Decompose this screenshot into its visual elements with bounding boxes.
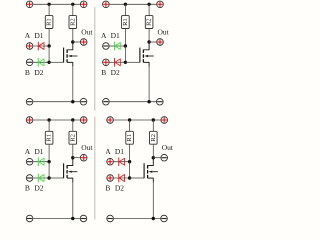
node BL top rail R2 tap (junction dot) <box>71 118 74 121</box>
terminal TR supply V+ right <box>157 1 164 8</box>
terminal BL supply V+ right <box>80 117 87 124</box>
wire TR bottom supply rail <box>110 101 157 103</box>
node BR diode node lower / gate tap (junction dot) <box>128 176 131 179</box>
wire TL bottom supply rail <box>33 101 80 103</box>
svg-text:Out: Out <box>81 27 93 36</box>
svg-text:R1: R1 <box>126 134 133 142</box>
wire TL drain node to Out terminal <box>73 41 80 43</box>
svg-text:D2: D2 <box>115 184 124 193</box>
wire BR drain node to Out terminal <box>153 157 160 159</box>
terminal TL input A <box>26 43 33 50</box>
wire TR R1 bottom lead to diode node <box>124 29 126 47</box>
terminal TR input B <box>103 59 110 66</box>
diode D1 <box>38 42 44 51</box>
svg-text:B: B <box>105 184 110 193</box>
wire TL input B through D2 to node <box>33 61 49 63</box>
wire BL input A through D1 to node <box>33 161 49 163</box>
wire BR diode node vertical <box>129 162 131 178</box>
transistor Q1 (BR n-channel MOSFET) <box>130 158 158 183</box>
wire TL top supply rail <box>33 3 80 5</box>
diode D2 <box>38 174 44 183</box>
wire TL source to bottom rail <box>72 67 74 102</box>
wire TR input B through D2 to node <box>110 61 126 63</box>
terminal TR supply V+ left <box>103 1 110 8</box>
wire BR R2 bottom lead to drain node <box>152 144 154 158</box>
node BR diode node upper (junction dot) <box>128 160 131 163</box>
resistor R1 <box>122 16 130 29</box>
node BL drain node (junction dot) <box>71 156 74 159</box>
transistor Q1 (TL n-channel MOSFET) <box>49 42 77 67</box>
svg-text:A: A <box>25 147 31 156</box>
wire BL R1 bottom lead to diode node <box>48 144 50 162</box>
wire TR R2 bottom lead to drain node <box>148 29 150 43</box>
wire TR drain node to Out terminal <box>149 41 156 43</box>
node TL bottom rail source tap (junction dot) <box>71 100 74 103</box>
diode D1 <box>119 157 125 166</box>
svg-text:B: B <box>25 184 30 193</box>
diode D1 <box>115 42 121 51</box>
terminal TL input B <box>26 59 33 66</box>
terminal TL supply V+ right <box>80 1 87 8</box>
wire BL R2 top lead <box>72 120 74 131</box>
wire TR top supply rail <box>110 3 157 5</box>
terminal BL Out <box>80 154 87 161</box>
wire BR input B through D2 to node <box>114 177 130 179</box>
terminal TL supply V- right <box>80 98 87 105</box>
wire BL drain node to Out terminal <box>73 157 80 159</box>
svg-text:D2: D2 <box>34 68 43 77</box>
resistor R1 <box>126 131 134 144</box>
svg-text:A: A <box>101 31 107 40</box>
wire BR R2 top lead <box>152 120 154 131</box>
svg-text:B: B <box>101 68 106 77</box>
terminal BR Out <box>161 154 168 161</box>
diode D2 <box>38 58 44 67</box>
node BR bottom rail source tap (junction dot) <box>152 217 155 220</box>
terminal BR input A <box>107 158 114 165</box>
column separator rule (bottom half) <box>94 117 96 220</box>
terminal TR Out <box>157 39 164 46</box>
wire TR R1 top lead <box>124 4 126 15</box>
node TL diode node lower / gate tap (junction dot) <box>47 61 50 64</box>
node TL top rail R1 tap (junction dot) <box>47 3 50 6</box>
wire BL top supply rail <box>33 119 80 121</box>
svg-text:D1: D1 <box>34 147 43 156</box>
wire TR R2 top lead <box>148 4 150 15</box>
terminal TR supply V- right <box>157 98 164 105</box>
terminal TR supply V- left <box>103 98 110 105</box>
node TL diode node upper (junction dot) <box>47 44 50 47</box>
transistor Q1 (TR n-channel MOSFET) <box>125 42 153 67</box>
node BR top rail R2 tap (junction dot) <box>152 118 155 121</box>
terminal BR supply V+ left <box>107 117 114 124</box>
node TR top rail R1 tap (junction dot) <box>124 3 127 6</box>
svg-text:R2: R2 <box>150 134 157 142</box>
node TL drain node (junction dot) <box>71 40 74 43</box>
wire TR diode node vertical <box>124 46 126 62</box>
svg-text:D1: D1 <box>34 31 43 40</box>
wire TL input A through D1 to node <box>33 45 49 47</box>
resistor R2 <box>69 131 77 144</box>
resistor R1 <box>45 16 53 29</box>
terminal BR supply V- right <box>161 215 168 222</box>
node TR drain node (junction dot) <box>147 40 150 43</box>
node BL bottom rail source tap (junction dot) <box>71 217 74 220</box>
transistor Q1 (BL n-channel MOSFET) <box>49 158 77 183</box>
wire TL R1 top lead <box>48 4 50 15</box>
column separator rule (top half) <box>94 7 96 111</box>
wire TL R1 bottom lead to diode node <box>48 29 50 47</box>
terminal BR supply V+ right <box>161 117 168 124</box>
node BL top rail R1 tap (junction dot) <box>47 118 50 121</box>
wire BR input A through D1 to node <box>114 161 130 163</box>
svg-text:A: A <box>105 147 111 156</box>
wire TL R2 bottom lead to drain node <box>72 29 74 43</box>
node TL top rail R2 tap (junction dot) <box>71 3 74 6</box>
wire BR source to bottom rail <box>152 183 154 219</box>
resistor R2 <box>69 16 77 29</box>
wire BL input B through D2 to node <box>33 177 49 179</box>
wire BR bottom supply rail <box>114 218 160 220</box>
node BR drain node (junction dot) <box>152 156 155 159</box>
node BL diode node upper (junction dot) <box>47 160 50 163</box>
svg-text:R2: R2 <box>146 18 153 26</box>
terminal BL input A <box>26 158 33 165</box>
diode D2 <box>115 58 121 67</box>
node BL diode node lower / gate tap (junction dot) <box>47 176 50 179</box>
svg-text:D1: D1 <box>111 31 120 40</box>
svg-text:A: A <box>25 31 31 40</box>
resistor R2 <box>145 16 153 29</box>
terminal BR input B <box>107 175 114 182</box>
svg-text:B: B <box>25 68 30 77</box>
svg-text:Out: Out <box>162 143 174 152</box>
svg-text:R1: R1 <box>46 134 53 142</box>
wire TL R2 top lead <box>72 4 74 15</box>
svg-text:R2: R2 <box>69 134 76 142</box>
terminal BL supply V+ left <box>26 117 33 124</box>
terminal TR input A <box>103 43 110 50</box>
wire BR top supply rail <box>114 119 160 121</box>
diode D2 <box>119 174 125 183</box>
svg-text:R2: R2 <box>69 18 76 26</box>
terminal TL Out <box>80 39 87 46</box>
wire TR source to bottom rail <box>148 67 150 102</box>
wire BR R1 top lead <box>129 120 131 131</box>
wire BL bottom supply rail <box>33 218 80 220</box>
wire TL diode node vertical <box>48 46 50 62</box>
node TR bottom rail source tap (junction dot) <box>147 100 150 103</box>
wire BL R2 bottom lead to drain node <box>72 144 74 158</box>
resistor R1 <box>45 131 53 144</box>
diode D1 <box>38 157 44 166</box>
wire BL source to bottom rail <box>72 183 74 219</box>
wire BL diode node vertical <box>48 162 50 178</box>
node BR top rail R1 tap (junction dot) <box>128 118 131 121</box>
terminal BL input B <box>26 175 33 182</box>
terminal TL supply V- left <box>26 98 33 105</box>
terminal BL supply V- left <box>26 215 33 222</box>
svg-text:D2: D2 <box>111 68 120 77</box>
wire BR R1 bottom lead to diode node <box>129 144 131 162</box>
terminal TL supply V+ left <box>26 1 33 8</box>
svg-text:R1: R1 <box>46 18 53 26</box>
wire BL R1 top lead <box>48 120 50 131</box>
wire TR input A through D1 to node <box>110 45 126 47</box>
svg-text:Out: Out <box>81 143 93 152</box>
svg-text:Out: Out <box>158 27 170 36</box>
terminal BL supply V- right <box>80 215 87 222</box>
resistor R2 <box>150 131 158 144</box>
node TR top rail R2 tap (junction dot) <box>147 3 150 6</box>
svg-text:D2: D2 <box>34 184 43 193</box>
svg-text:D1: D1 <box>115 147 124 156</box>
node TR diode node upper (junction dot) <box>124 44 127 47</box>
terminal BR supply V- left <box>107 215 114 222</box>
node TR diode node lower / gate tap (junction dot) <box>124 61 127 64</box>
svg-text:R1: R1 <box>122 18 129 26</box>
